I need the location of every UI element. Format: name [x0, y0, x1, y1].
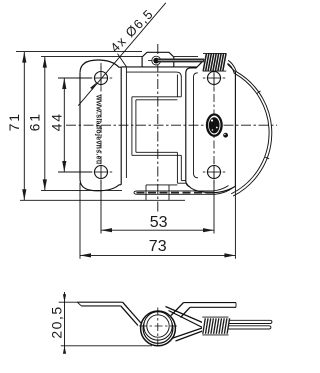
dimension arrows — [22, 52, 235, 258]
dimension line 73 — [80, 254, 235, 256]
wire cross ticks — [257, 91, 260, 94]
centerline right hole column — [213, 63, 215, 187]
centerline horizontal — [66, 124, 277, 126]
arrow 71 top — [22, 52, 26, 63]
pivot crosshair — [139, 325, 177, 327]
knuckle inner top edge — [126, 72, 181, 97]
extension lines 73 dim — [79, 183, 81, 259]
svg-text:20,5: 20,5 — [49, 305, 65, 338]
exit wires to coil — [166, 307, 203, 323]
holes with crosshairs — [90, 67, 225, 183]
plate edge diagonal — [118, 54, 127, 67]
knuckle left verticals — [120, 67, 122, 185]
right plate inner step — [194, 73, 199, 178]
extension 20.5 bottom — [61, 345, 152, 347]
twin wire ends right — [228, 319, 271, 321]
right plate bottom dome — [186, 183, 236, 193]
top coil spring — [202, 53, 230, 72]
arrow 71 bottom — [22, 189, 26, 200]
right plate right edge — [234, 72, 236, 187]
centre boss with logo — [207, 115, 222, 136]
hole bottom-left (Ø6.5) — [95, 166, 108, 179]
bottom wire bar — [138, 186, 229, 191]
big spring wire arc outer — [227, 60, 272, 196]
dimension texts — [6, 6, 168, 255]
arrow 61 top — [43, 57, 47, 68]
right plate left edge — [186, 59, 205, 181]
arrow 44 top — [62, 78, 66, 89]
dimension line 53 — [101, 229, 214, 231]
extension line (61 dim top) — [41, 56, 142, 58]
dimension line 61 — [44, 57, 46, 191]
bottom coil — [202, 318, 229, 334]
arrow 61 bottom — [43, 179, 47, 190]
strap bend — [123, 302, 142, 324]
arrow 53 right — [203, 228, 214, 232]
cutout lines — [132, 96, 181, 98]
hole top-right (Ø6.5) — [208, 72, 221, 85]
tab — [142, 52, 174, 67]
leader line 4x dia 6.5 — [78, 3, 166, 106]
svg-text:61: 61 — [26, 112, 42, 131]
lower wires to coil — [172, 328, 203, 339]
20.5 arrows outside — [63, 294, 66, 354]
arrow 73 left — [80, 253, 91, 257]
hole top-left (Ø6.5) — [95, 72, 108, 85]
left plate outline top — [80, 60, 121, 73]
right plate top dome right slope — [227, 64, 236, 72]
arrow 44 bottom — [62, 161, 66, 172]
svg-text:53: 53 — [150, 214, 168, 231]
ledge lines — [181, 180, 186, 182]
left plate left edge — [79, 73, 81, 180]
svg-text:73: 73 — [149, 238, 167, 255]
arrow 53 left — [101, 228, 112, 232]
svg-text:www.sladojevns.eu: www.sladojevns.eu — [95, 94, 102, 164]
pivot circles — [144, 312, 172, 340]
dim line 20.5 — [64, 292, 66, 352]
rod from pin to coil — [158, 59, 205, 63]
svg-text:44: 44 — [48, 112, 64, 131]
upper strap — [184, 302, 237, 304]
centerline vertical pin — [157, 44, 159, 212]
centerline left hole column — [100, 63, 102, 187]
arrow 20.5 bottom — [63, 346, 66, 354]
extension line top (71 dim) — [16, 51, 142, 53]
hole bottom-right (Ø6.5) — [208, 166, 221, 179]
arrow 73 right — [224, 253, 235, 257]
dimension line 71 — [23, 52, 25, 201]
extension line (61 dim bottom) — [41, 189, 122, 191]
dimension line 44 — [63, 78, 65, 172]
wire loop — [141, 311, 176, 346]
big spring wire arc inner — [227, 63, 269, 194]
knuckle bottom edge — [146, 184, 177, 186]
knuckle top edge — [121, 66, 196, 68]
extension lines 53 dim — [100, 180, 102, 234]
leader arrowhead — [90, 82, 97, 90]
pivot pin tab detail — [152, 56, 161, 65]
left strap — [77, 301, 122, 303]
extension 20.5 top — [59, 301, 78, 303]
extension lines 44 dim — [58, 77, 92, 79]
lower boss — [145, 185, 147, 200]
arrow 20.5 top — [63, 294, 66, 302]
svg-text:71: 71 — [6, 112, 22, 131]
left plate outline bottom — [80, 179, 121, 191]
extension line bottom (71 dim) — [20, 199, 185, 201]
